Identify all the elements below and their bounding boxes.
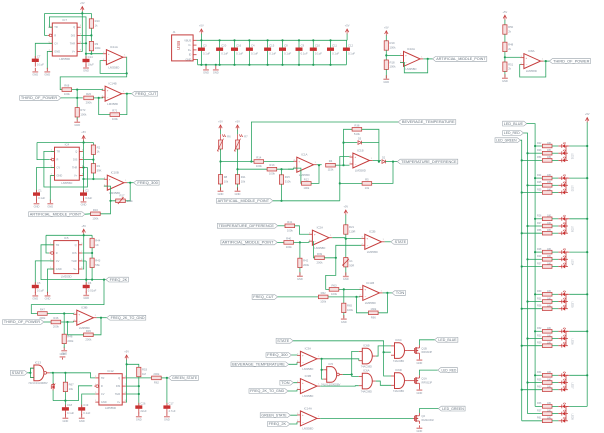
wire fb vert IC1B	[344, 129, 353, 165]
timer IC4 LM555D	[50, 142, 84, 185]
junction C9 top	[298, 39, 300, 41]
op-amp IC8A LM358D	[521, 49, 544, 73]
svg-text:110R: 110R	[349, 230, 355, 234]
potentiometer U1 50R	[342, 258, 354, 268]
ground C19	[79, 414, 85, 423]
svg-text:R18: R18	[390, 60, 396, 64]
svg-text:+5V: +5V	[124, 350, 129, 354]
ground C6	[83, 291, 89, 300]
label LED_RED bus	[503, 131, 524, 136]
LED8 chip 2	[562, 410, 566, 416]
resistor R40 100k	[284, 236, 294, 249]
svg-text:FREQ_300: FREQ_300	[267, 353, 288, 357]
junction reset rail	[64, 400, 66, 402]
svg-text:IC6C: IC6C	[395, 338, 402, 342]
wire freq to R62	[278, 296, 319, 298]
svg-text:LED7: LED7	[571, 383, 574, 390]
op-amp IC8B LM358D	[73, 306, 96, 330]
junction R43 node	[91, 279, 93, 281]
wire AMP to R40	[277, 241, 284, 243]
wire gate to Q1A	[408, 380, 413, 382]
resistor R58 180	[537, 305, 552, 311]
junction nand out branch	[351, 373, 353, 375]
wire cap C10 leads	[312, 40, 314, 65]
svg-text:GND: GND	[383, 80, 389, 84]
svg-text:R1: R1	[97, 164, 101, 168]
wire C6 top	[85, 280, 87, 285]
svg-text:R46: R46	[53, 316, 59, 320]
wire label to R46	[44, 321, 51, 323]
junction R68 node	[76, 89, 78, 91]
wire R43 bottom	[91, 268, 93, 280]
junction C20 bottom	[219, 64, 221, 66]
wire R2 to DIS	[92, 154, 94, 159]
svg-text:C18: C18	[67, 403, 73, 407]
svg-text:LED4: LED4	[571, 259, 574, 266]
svg-text:GND: GND	[32, 297, 38, 301]
svg-text:DIS: DIS	[116, 384, 121, 388]
wire R9 top	[90, 35, 92, 41]
wire IC14B out	[125, 93, 132, 95]
svg-text:C5: C5	[37, 281, 41, 285]
svg-text:R39: R39	[317, 252, 323, 256]
svg-text:R54: R54	[537, 156, 542, 159]
photoresistor R6	[217, 134, 231, 151]
svg-text:GREEN_STATE: GREEN_STATE	[261, 413, 287, 417]
wire reset to +5V	[45, 13, 48, 35]
resistor R22 180	[537, 142, 552, 148]
wire group2 row3	[522, 192, 543, 194]
junction C17 tap	[166, 377, 168, 379]
resistor R45 200k	[84, 329, 94, 342]
svg-text:GREEN_STATE: GREEN_STATE	[172, 376, 198, 380]
svg-text:R11: R11	[241, 175, 246, 179]
junction third tap	[504, 56, 506, 58]
svg-text:D+: D+	[188, 48, 192, 52]
wire res to led g4r2	[552, 258, 558, 260]
wire res to led g1r3	[552, 159, 558, 161]
capacitor C17 4.7uF	[163, 401, 175, 413]
junction bus g4r2	[526, 258, 528, 260]
ground C18	[63, 414, 69, 423]
ground C2	[81, 198, 87, 207]
capacitor C19 0.1uF	[78, 403, 90, 415]
wire IC2A out to IC2B	[332, 237, 361, 240]
wire bus blue	[527, 124, 535, 407]
junction THR C2	[82, 166, 84, 168]
svg-text:R29: R29	[537, 255, 542, 258]
ground C14	[83, 64, 89, 73]
svg-text:V+: V+	[73, 267, 77, 271]
LED6 chip 3	[562, 342, 566, 348]
junction C4 top	[248, 39, 250, 41]
svg-text:200k: 200k	[85, 337, 92, 341]
resistor R36 180	[537, 402, 552, 408]
wire res to led g8r2	[552, 413, 558, 415]
junction IC1A out	[318, 164, 320, 166]
ground Q2	[417, 425, 423, 433]
junction inv node	[98, 97, 100, 99]
junction C8 bottom	[281, 64, 283, 66]
svg-text:56k: 56k	[95, 263, 100, 267]
junction bus g3r3	[521, 232, 523, 234]
svg-text:180: 180	[547, 334, 552, 337]
svg-text:74LVC1G00DBV: 74LVC1G00DBV	[28, 381, 48, 385]
svg-text:R24: R24	[537, 174, 542, 177]
wire nand out rail	[50, 373, 95, 378]
svg-text:STATE: STATE	[277, 339, 290, 343]
junction out IC14B	[126, 93, 128, 95]
LED8 chip 3	[562, 417, 566, 423]
LED1 chip 3	[562, 157, 566, 163]
svg-text:180: 180	[547, 297, 552, 300]
transistor Q1A IRF9313P	[413, 375, 433, 386]
svg-text:100k: 100k	[390, 65, 397, 69]
junction R15 AMP	[280, 200, 282, 202]
junction node1 R6	[219, 160, 221, 162]
svg-text:TON: TON	[396, 291, 405, 295]
resistor R23 180	[537, 149, 552, 155]
wire LED5 to +5V	[569, 293, 587, 295]
wire res to led g7r3	[552, 389, 558, 391]
svg-text:0.1uF: 0.1uF	[67, 411, 74, 415]
wire D1 top	[52, 373, 54, 385]
svg-text:CV: CV	[56, 259, 60, 263]
wire cap C9 leads	[298, 40, 300, 65]
wire R42 top	[299, 242, 301, 258]
wire led lead g5r3	[558, 308, 561, 310]
LED2 chip 1	[562, 174, 566, 180]
svg-text:100k: 100k	[287, 228, 294, 232]
LED5 chip 2	[562, 298, 566, 304]
svg-text:LM555D: LM555D	[105, 406, 116, 410]
svg-text:LM358D: LM358D	[107, 102, 118, 106]
svg-text:R27: R27	[537, 222, 542, 225]
junction node1 tap	[250, 160, 252, 162]
wire led lead g5r1	[558, 293, 561, 295]
junction C16 bottom	[233, 64, 235, 66]
svg-text:R4: R4	[329, 159, 333, 163]
svg-text:+5V: +5V	[345, 24, 350, 28]
svg-text:C11: C11	[332, 44, 337, 48]
wire IC3B out	[320, 385, 359, 387]
junction +5V rail IC4	[83, 141, 85, 143]
LED6 chip 1	[562, 328, 566, 334]
wire +5V drop IC12	[126, 360, 128, 365]
junction R9 C14 node	[90, 53, 92, 55]
wire IC6A to IC6D	[376, 381, 391, 385]
svg-text:VBUS: VBUS	[184, 38, 191, 42]
svg-text:LM555D: LM555D	[61, 274, 72, 278]
svg-text:R16: R16	[93, 208, 99, 212]
wire group2 row2	[528, 184, 543, 186]
junction C3 top	[200, 39, 202, 41]
svg-text:22uF: 22uF	[140, 409, 147, 413]
wire cap C12 leads	[345, 40, 347, 65]
svg-text:GND: GND	[74, 123, 80, 127]
wire Q1B drain	[419, 340, 434, 345]
svg-text:50R: 50R	[349, 264, 354, 268]
ground C17	[164, 413, 170, 422]
svg-text:C12: C12	[348, 44, 354, 48]
resistor R65 100k	[342, 303, 354, 312]
ground R42	[297, 272, 303, 281]
wire group2 row1	[535, 177, 542, 179]
wire LED8 to +5V	[569, 405, 587, 407]
svg-text:IC5: IC5	[328, 362, 333, 366]
diode D2	[382, 157, 386, 164]
wire TR tie IC5	[50, 244, 54, 246]
wire +5V to R50	[504, 20, 506, 25]
svg-text:V+: V+	[72, 49, 76, 53]
wire group7 row1	[535, 374, 542, 376]
wire AMP label to R16	[85, 213, 91, 215]
svg-text:R41: R41	[287, 220, 293, 224]
label FREQ_2K out	[106, 277, 128, 282]
svg-text:0.1uF: 0.1uF	[284, 51, 291, 55]
junction C20 top	[219, 39, 221, 41]
svg-text:DIS: DIS	[71, 33, 76, 37]
wire f2g to IC3B	[288, 390, 297, 391]
svg-text:LM555D: LM555D	[61, 181, 72, 185]
ground R65	[341, 315, 347, 324]
LED5 chip 3	[562, 305, 566, 311]
wire tap to plus	[505, 56, 521, 58]
wire CV to C19	[82, 394, 96, 407]
svg-text:R62: R62	[321, 291, 327, 295]
svg-text:R6: R6	[227, 134, 231, 138]
svg-text:DIS: DIS	[72, 251, 77, 255]
svg-text:TR: TR	[54, 25, 58, 29]
svg-text:FREQ_2K_TO_GND: FREQ_2K_TO_GND	[250, 389, 285, 393]
resistor R55 180	[537, 188, 552, 194]
svg-text:Q: Q	[75, 149, 77, 153]
resistor R38 510k	[352, 123, 362, 136]
svg-text:IC13: IC13	[35, 360, 41, 364]
wire R14 to plus	[264, 160, 294, 162]
svg-text:0.1uF: 0.1uF	[221, 51, 228, 55]
junction divider IC10A	[385, 54, 387, 56]
LED3 chip 2	[562, 222, 566, 228]
junction R42 tap	[299, 241, 301, 243]
svg-text:R57: R57	[537, 262, 542, 265]
svg-text:R34: R34	[537, 371, 542, 374]
resistor R43 56k	[90, 258, 101, 267]
wire TR under route	[51, 150, 55, 152]
ground IC5	[45, 292, 51, 301]
wire LED3 to +5V	[569, 218, 587, 220]
wire R71 to inv	[99, 98, 110, 115]
svg-text:0.1uF: 0.1uF	[315, 51, 322, 55]
junction STATE branch	[383, 351, 385, 353]
junction R5 node	[392, 161, 394, 163]
svg-text:ID: ID	[189, 53, 192, 57]
wire led lead g6r1	[558, 330, 561, 332]
ground cap rail	[213, 66, 219, 75]
junction D5 tap	[342, 142, 344, 144]
wire res to led g4r3	[552, 266, 558, 268]
label THIRD_OF_POWER in	[20, 96, 61, 101]
svg-text:J1: J1	[173, 30, 176, 34]
wire LED4 to +5V	[569, 251, 587, 253]
svg-text:FREQ_CUT: FREQ_CUT	[135, 92, 156, 96]
svg-text:R51: R51	[508, 62, 514, 66]
LED3 chip 1	[562, 215, 566, 221]
svg-text:GND: GND	[56, 267, 62, 271]
svg-text:115k: 115k	[328, 168, 334, 172]
svg-text:THR: THR	[70, 41, 75, 45]
svg-text:IC12: IC12	[107, 369, 113, 373]
wire TR tie IC4	[44, 151, 88, 187]
svg-text:100k: 100k	[95, 46, 102, 50]
svg-text:LED_BLUE: LED_BLUE	[504, 122, 524, 126]
svg-text:0.1uF: 0.1uF	[83, 411, 90, 415]
wire DIS row IC12	[126, 385, 139, 387]
wire THR riser	[85, 261, 87, 280]
resistor R51 2k	[503, 62, 514, 71]
svg-text:LED5: LED5	[571, 302, 574, 309]
wire bev to IC3A	[289, 362, 297, 364]
svg-text:R23: R23	[537, 149, 542, 152]
svg-text:GND: GND	[203, 71, 209, 75]
svg-text:180: 180	[547, 188, 552, 191]
junction C4 bottom	[248, 64, 250, 66]
+5V supply IC10A	[384, 25, 389, 36]
wire group3 row3	[522, 232, 543, 234]
svg-text:IC7: IC7	[62, 18, 67, 22]
resistor R34 180	[537, 371, 552, 377]
wire res to led g6r3	[552, 345, 558, 347]
svg-text:GND: GND	[54, 49, 60, 53]
+5V supply IC12	[124, 350, 129, 361]
wire R6 bottom	[220, 149, 222, 162]
resistor R2 1k	[91, 145, 100, 154]
resistor R59 180	[537, 342, 552, 348]
svg-text:100k: 100k	[390, 46, 397, 50]
wire R65 gnd	[343, 313, 345, 319]
wire U1 gnd	[345, 267, 347, 276]
resistor R37 180	[537, 409, 552, 415]
wire R15 leads	[281, 169, 283, 175]
capacitor C5 0.1uF	[32, 281, 44, 293]
junction freq2k tap	[103, 279, 105, 281]
wire R9 bottom	[90, 51, 92, 54]
svg-text:D-: D-	[189, 43, 192, 47]
wire LED3 common anode	[565, 219, 569, 233]
NAND gate IC5 74LVC2G00DBV	[321, 362, 343, 387]
wire DIS row IC5	[82, 252, 92, 254]
LED4 chip 1	[562, 248, 566, 254]
junction out IC10A	[427, 58, 429, 60]
svg-text:0.1uF: 0.1uF	[332, 51, 339, 55]
junction inv IC8B	[66, 321, 68, 323]
capacitor C9 0.1uF	[296, 44, 308, 56]
wire R67 bottom	[64, 392, 66, 401]
wire res to led g1r2	[552, 152, 558, 154]
svg-text:IC8B: IC8B	[81, 306, 87, 310]
wire tdiff to R41	[278, 225, 285, 227]
+5V supply IC5	[81, 224, 86, 235]
svg-text:IC14A: IC14A	[304, 406, 312, 410]
wire label to R20	[61, 97, 83, 99]
wire V+ IC12	[125, 364, 128, 402]
wire +5V R21	[345, 215, 347, 225]
resistor R16 100k	[91, 208, 101, 221]
wire D2 to label	[385, 161, 397, 163]
ground Q1A	[417, 386, 423, 395]
svg-text:R17: R17	[120, 193, 126, 197]
svg-text:200k: 200k	[86, 100, 93, 104]
junction out IC8A	[545, 60, 547, 62]
junction rail g2	[586, 177, 588, 179]
wire IC11A feedback	[125, 57, 128, 73]
svg-text:0.1uF: 0.1uF	[203, 51, 210, 55]
svg-text:LM358D: LM358D	[302, 394, 313, 398]
wire +5V R6	[220, 130, 222, 135]
svg-text:FREQ_300: FREQ_300	[137, 181, 158, 185]
capacitor C15 0.1uF	[264, 44, 276, 56]
svg-text:100k: 100k	[269, 172, 276, 176]
label LED_GREEN bus	[495, 138, 520, 143]
wire beverage tap	[251, 122, 398, 162]
junction C11 bottom	[329, 64, 331, 66]
svg-text:ARTIFICIAL_MIDDLE_POINT: ARTIFICIAL_MIDDLE_POINT	[222, 241, 273, 245]
wire THR row IC12	[126, 393, 139, 395]
label LED_GREEN out	[438, 406, 465, 411]
capacitor C12 0.1uF	[343, 44, 355, 56]
svg-text:100k: 100k	[347, 308, 354, 312]
wire THR row	[81, 42, 86, 44]
junction R15 top	[280, 168, 282, 170]
wire cap C11 leads	[330, 40, 332, 65]
junction nand in	[29, 372, 31, 374]
ground C1	[34, 200, 40, 209]
junction bus g6r1	[534, 330, 536, 332]
junction bus g4r3	[521, 265, 523, 267]
junction C10 top	[312, 39, 314, 41]
svg-text:0.1uF: 0.1uF	[269, 51, 276, 55]
svg-text:GND: GND	[186, 58, 192, 62]
wire IC14A out long	[320, 417, 413, 419]
svg-text:R63: R63	[331, 283, 337, 287]
resistor R31 180	[537, 297, 552, 303]
junction out IC11B	[386, 292, 388, 294]
+5V supply caps right	[345, 24, 350, 35]
op-amp IC11B LM358D	[359, 281, 382, 305]
wire group5 row3	[522, 308, 543, 310]
junction C10 bottom	[312, 64, 314, 66]
wire res to led g8r3	[552, 420, 558, 422]
wire group7 row3	[522, 389, 543, 391]
svg-text:Q1A: Q1A	[421, 376, 427, 380]
svg-text:R21: R21	[349, 225, 355, 229]
svg-text:DIS: DIS	[73, 158, 78, 162]
svg-text:0.01uF: 0.01uF	[88, 289, 97, 293]
svg-text:10k: 10k	[365, 186, 370, 190]
junction bus g7r3	[521, 389, 523, 391]
svg-text:V+: V+	[74, 174, 78, 178]
text LED3 designator	[571, 226, 574, 233]
wire group4 row3	[522, 266, 543, 268]
resistor R26 180	[537, 215, 552, 221]
LED7 chip 3	[562, 386, 566, 392]
svg-text:200k: 200k	[303, 263, 310, 267]
svg-text:C16: C16	[236, 44, 242, 48]
wire IC6B to IC6C	[376, 346, 391, 356]
svg-text:510k: 510k	[285, 180, 292, 184]
svg-text:10k: 10k	[224, 179, 229, 183]
wire D1 bottom	[52, 390, 54, 400]
